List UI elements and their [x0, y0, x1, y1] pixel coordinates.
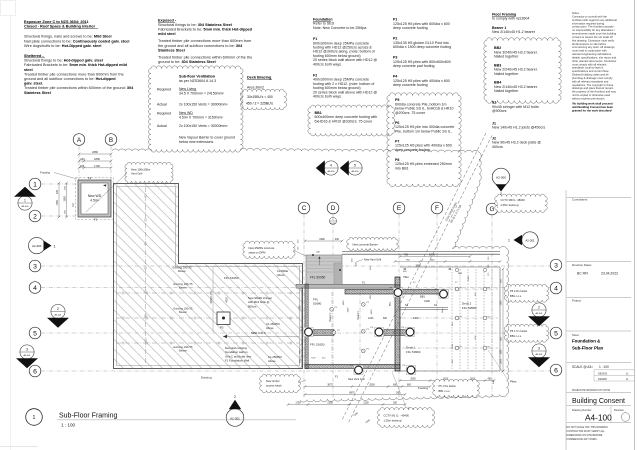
- svg-text:1980: 1980: [501, 349, 503, 355]
- svg-text:2x 100x150 Vents = 30000mm²: 2x 100x150 Vents = 30000mm²: [179, 103, 228, 107]
- P1 pile squares: [330, 307, 334, 311]
- svg-text:Nailed together: Nailed together: [494, 89, 519, 93]
- new room inner line: [308, 288, 395, 364]
- svg-text:P5 1.7m below: P5 1.7m below: [510, 329, 527, 333]
- svg-text:Revision: Revision: [614, 408, 625, 412]
- svg-text:Bearer: Bearer: [179, 310, 187, 314]
- svg-text:1.05m below gl: 1.05m below gl: [384, 418, 402, 422]
- svg-text:without express permission.: without express permission.: [572, 97, 605, 101]
- svg-text:Nail plate connections to be:: Nail plate connections to be: Continuous…: [24, 39, 129, 43]
- svg-text:New Vent Grill: New Vent Grill: [364, 258, 381, 262]
- S1 stringers: [400, 307, 448, 309]
- svg-text:Footing: Footing: [40, 171, 50, 175]
- svg-text:1: 1: [54, 244, 56, 248]
- existing building hatched footprint: [114, 184, 303, 369]
- beam deck1: [379, 330, 410, 336]
- svg-text:1890: 1890: [94, 157, 100, 161]
- svg-text:P5 1.5m below: P5 1.5m below: [439, 384, 456, 388]
- svg-text:until Building Consent has bee: until Building Consent has been: [572, 105, 613, 109]
- svg-text:information required during: information required during: [572, 21, 605, 25]
- svg-text:galv. steel.: galv. steel.: [24, 82, 43, 86]
- svg-text:Required: Required: [157, 87, 171, 91]
- deck bracing cloud: [240, 89, 286, 110]
- svg-text:Pile, bottom 1m below Public S: Pile, bottom 1m below Public SS IL.: [395, 129, 452, 133]
- svg-text:300: 300: [393, 402, 398, 405]
- WD top dimensions: [79, 153, 111, 155]
- svg-text:450 / 2 = 225BU's: 450 / 2 = 225BU's: [246, 101, 273, 105]
- deck outline: [400, 266, 500, 268]
- svg-text:Exposed -: Exposed -: [158, 19, 177, 23]
- svg-text:DRAWN: DRAWN: [598, 378, 607, 381]
- grid lines vertical: [78, 146, 80, 180]
- svg-text:Above: Above: [268, 359, 276, 363]
- svg-text:2: 2: [234, 395, 236, 399]
- svg-text:as per NZS3604 6.14.3: as per NZS3604 6.14.3: [179, 79, 216, 83]
- public sewer dashed line 2: [349, 136, 493, 423]
- svg-text:2050: 2050: [410, 378, 416, 381]
- svg-text:P3: P3: [220, 326, 224, 330]
- svg-text:2: 2: [538, 305, 540, 309]
- svg-text:C: C: [302, 205, 307, 212]
- svg-text:Stainless Steel: Stainless Steel: [24, 91, 51, 95]
- existing bearers: [116, 292, 300, 294]
- new timber access hatch cloud: [260, 374, 301, 393]
- svg-text:Bearer 1: Bearer 1: [329, 312, 332, 322]
- svg-text:amendments made once the build: amendments made once the building: [572, 32, 617, 36]
- svg-text:3: 3: [33, 263, 37, 270]
- svg-text:F2: F2: [88, 176, 92, 180]
- svg-text:2x 100x150 Vents = 30000mm²: 2x 100x150 Vents = 30000mm²: [179, 124, 228, 128]
- concrete steps: [306, 255, 342, 288]
- svg-text:Zealand building codes,and all: Zealand building codes,and all: [572, 73, 609, 77]
- sheet left trim line: [10, 16, 12, 450]
- svg-text:up: up: [317, 250, 321, 254]
- svg-text:CONTRACTOR MUST VERIFY ALL: CONTRACTOR MUST VERIFY ALL: [567, 430, 606, 433]
- svg-text:400crs both ways.: 400crs both ways.: [313, 62, 342, 66]
- svg-text:access hatch: access hatch: [266, 384, 282, 388]
- svg-text:1790: 1790: [300, 305, 302, 311]
- svg-text:Contractor to consult with the: Contractor to consult with the: [572, 14, 607, 18]
- concrete barrier: [342, 251, 500, 253]
- svg-text:must comply with all relevant: must comply with all relevant: [572, 62, 607, 66]
- svg-text:New timber: New timber: [266, 379, 280, 383]
- svg-text:2100: 2100: [413, 317, 419, 320]
- svg-text:relevant engineering calculati: relevant engineering calculations,: [572, 52, 612, 56]
- P5-P8 cloud: [387, 93, 462, 187]
- elevation marker A2-301 bottom balloon: [226, 395, 244, 426]
- svg-text:Structural fixings, nails and: Structural fixings, nails and screws to …: [24, 35, 112, 39]
- svg-text:A5-500: A5-500: [330, 222, 336, 225]
- BB1 cloud note: [308, 105, 395, 136]
- svg-text:Actual: Actual: [157, 124, 167, 128]
- svg-text:Revision Dates: Revision Dates: [572, 263, 592, 267]
- svg-text:Area 30m2: Area 30m2: [247, 86, 264, 90]
- svg-text:2.05m below gl: 2.05m below gl: [501, 203, 519, 207]
- svg-text:Footing: Footing: [418, 386, 428, 390]
- svg-text:Stainless Steel: Stainless Steel: [158, 48, 185, 52]
- section marker 3/A3-401: [16, 345, 38, 368]
- svg-text:5: 5: [354, 163, 356, 167]
- svg-text:DIMENSIONS ON SITE BEFORE: DIMENSIONS ON SITE BEFORE: [567, 434, 603, 437]
- svg-text:New Living: New Living: [179, 87, 196, 91]
- svg-text:4: 4: [33, 285, 37, 292]
- marker 2/A5-500 below D: [329, 217, 336, 224]
- svg-text:A2-300: A2-300: [32, 244, 42, 248]
- svg-text:mild steel: mild steel: [158, 32, 176, 36]
- svg-text:Nailed together: Nailed together: [494, 72, 519, 76]
- svg-text:1460: 1460: [343, 300, 345, 306]
- svg-text:400: 400: [335, 238, 340, 241]
- svg-text:steel: steel: [24, 68, 33, 72]
- svg-text:the property of the Architect: the property of the Architect and may: [572, 90, 617, 94]
- svg-text:CCTV MD IL: 48000: CCTV MD IL: 48000: [501, 198, 526, 202]
- svg-text:Architect with regard to any a: Architect with regard to any additional: [572, 18, 617, 22]
- svg-text:Step: Step: [441, 308, 444, 313]
- svg-text:1990: 1990: [319, 238, 325, 241]
- elevation marker A2-301 right: [508, 232, 538, 248]
- svg-text:F2: F2: [94, 218, 98, 222]
- svg-text:2: 2: [33, 213, 37, 220]
- svg-text:New 2/140x45 H1.2 bearer: New 2/140x45 H1.2 bearer: [492, 30, 536, 34]
- svg-text:A2-300: A2-300: [496, 176, 506, 180]
- svg-text:4.5m² X 700mm = 3150mm²: 4.5m² X 700mm = 3150mm²: [179, 116, 224, 120]
- title block borders: [634, 0, 636, 450]
- svg-text:Bearer: Bearer: [178, 269, 186, 273]
- svg-text:Actual: Actual: [157, 103, 167, 107]
- svg-text:1490: 1490: [348, 307, 350, 313]
- svg-text:with all relevant standards an: with all relevant standards and: [572, 79, 609, 83]
- svg-text:5: 5: [33, 330, 37, 337]
- svg-text:Above: Above: [266, 326, 274, 330]
- svg-text:standards, local by-laws &: standards, local by-laws &: [572, 66, 603, 70]
- CCTV M1 cloud: [378, 408, 435, 428]
- WD left dimensions: [58, 183, 60, 217]
- svg-text:DO NOT SCALE OFF THIS DRAWING.: DO NOT SCALE OFF THIS DRAWING.: [567, 426, 609, 429]
- svg-text:Wire dogs/bolts to be: Hot-Dip: Wire dogs/bolts to be: Hot-Dipped galv. …: [24, 44, 101, 48]
- svg-text:400crs both ways.: 400crs both ways.: [313, 95, 342, 99]
- svg-text:Sub-floor Ventilation: Sub-floor Ventilation: [179, 74, 216, 78]
- grid lines horizontal: [41, 183, 77, 185]
- dims right of room (vertical): [301, 288, 303, 367]
- svg-text:1230: 1230: [368, 317, 374, 320]
- svg-text:@900crs: @900crs: [492, 109, 507, 113]
- svg-text:Project: Project: [572, 299, 581, 303]
- existing building inner wall line: [117, 187, 300, 366]
- svg-text:1: 1: [24, 198, 26, 202]
- svg-text:8970: 8970: [349, 392, 355, 395]
- section marker 2/A3-401: [47, 304, 69, 327]
- section marker 5/A3-400: [340, 160, 362, 175]
- beam room: [313, 330, 334, 336]
- svg-text:FFL 51650: FFL 51650: [310, 343, 325, 347]
- svg-text:700: 700: [404, 254, 409, 257]
- svg-text:4930: 4930: [226, 297, 229, 303]
- svg-text:C1-250PFC: C1-250PFC: [266, 322, 280, 326]
- svg-text:F2: F2: [71, 203, 75, 207]
- svg-text:New WD: New WD: [88, 194, 102, 198]
- sheet bottom-left mark: [0, 446, 38, 448]
- svg-text:Deck 2: Deck 2: [462, 302, 472, 306]
- svg-text:600: 600: [383, 317, 388, 320]
- svg-text:Structural fixings to be: Hot-: Structural fixings to be: Hot-dipped gal…: [24, 59, 103, 63]
- svg-text:51680: 51680: [313, 302, 322, 306]
- svg-text:1 : 100: 1 : 100: [61, 422, 75, 427]
- svg-text:3: 3: [554, 262, 558, 269]
- svg-text:SCALE @ A3=: SCALE @ A3=: [572, 365, 593, 369]
- svg-text:BB1 c.o.s.: BB1 c.o.s.: [510, 294, 522, 298]
- svg-text:Bearer: Bearer: [179, 348, 187, 352]
- section marker 2/A3-401: [528, 303, 550, 326]
- deck top micro annotations: [395, 261, 500, 263]
- svg-text:A3-401: A3-401: [54, 314, 62, 317]
- svg-text:Existing 100x75: Existing 100x75: [174, 282, 193, 286]
- svg-text:Exposure Zone C to NZS 3604: 2: Exposure Zone C to NZS 3604: 2011: [24, 20, 89, 24]
- svg-text:ISSUE DATE 30/03/2022 9:57:34: ISSUE DATE 30/03/2022 9:57:34 PM: [572, 389, 610, 392]
- svg-text:Consultants: Consultants: [572, 198, 588, 202]
- grid bubbles right: [550, 259, 562, 271]
- svg-text:other relevant documents. Cont: other relevant documents. Contractor: [572, 59, 616, 63]
- public sewer dashed line 1: [342, 133, 486, 420]
- svg-text:G: G: [490, 206, 495, 213]
- svg-text:900crs: 900crs: [248, 304, 257, 308]
- section marker 4/A3-400: [316, 160, 338, 175]
- svg-text:4: 4: [554, 285, 558, 292]
- svg-text:195: 195: [80, 164, 85, 168]
- svg-text:drawings and plans thereof rem: drawings and plans thereof remain: [572, 86, 614, 90]
- svg-text:New Vent Grill: New Vent Grill: [348, 377, 365, 381]
- svg-text:FFL 50960: FFL 50960: [406, 350, 421, 354]
- svg-text:6: 6: [33, 368, 37, 375]
- svg-text:3100: 3100: [424, 299, 430, 303]
- big revision cloud boundary: [112, 149, 152, 151]
- svg-text:steps on DPM: steps on DPM: [249, 251, 267, 255]
- svg-text:COMMENCING ANY WORK.: COMMENCING ANY WORK.: [567, 438, 598, 441]
- svg-text:FFL 50950: FFL 50950: [310, 276, 326, 280]
- grid bubbles top C-G: [298, 202, 310, 214]
- elevation marker A2-300 left: [29, 237, 56, 253]
- svg-text:the ground and all subfloor co: the ground and all subfloor connections …: [158, 44, 243, 48]
- svg-text:1: 1: [33, 181, 37, 188]
- svg-text:commencing any work. All drawi: commencing any work. All drawings: [572, 45, 615, 49]
- svg-text:Sub-Floor Plan: Sub-Floor Plan: [572, 346, 604, 351]
- svg-text:plumbing & drainage must compl: plumbing & drainage must comply: [572, 76, 613, 80]
- svg-text:2: 2: [57, 307, 59, 311]
- svg-text:ground to be: 304 Stainless St: ground to be: 304 Stainless Steel: [158, 60, 216, 64]
- svg-text:Building Consent: Building Consent: [572, 398, 625, 405]
- svg-text:5: 5: [554, 330, 558, 337]
- svg-text:2100: 2100: [363, 402, 369, 405]
- svg-text:deep concrete footing: deep concrete footing: [393, 83, 428, 87]
- svg-text:Treated timber pile connection: Treated timber pile connections more tha…: [24, 72, 124, 76]
- new room foundation walls: [296, 284, 400, 288]
- svg-text:CCTV M1 IL: - 49400: CCTV M1 IL: - 49400: [384, 414, 410, 418]
- svg-text:BB1 c.o.s.: BB1 c.o.s.: [510, 334, 522, 338]
- svg-text:Piles: Piles: [510, 380, 517, 384]
- svg-text:regulations. The copyright to: regulations. The copyright to these: [572, 83, 614, 87]
- svg-text:BC RFI: BC RFI: [577, 272, 588, 276]
- svg-text:6: 6: [554, 367, 558, 374]
- svg-text:5250 C.O.S.: 5250 C.O.S.: [251, 331, 267, 335]
- svg-text:Nailed together: Nailed together: [494, 55, 519, 59]
- svg-text:all dimensions on site before: all dimensions on site before: [572, 42, 607, 46]
- svg-text:F: F: [435, 205, 439, 212]
- svg-text:Treated timber pile connection: Treated timber pile connections within 6…: [24, 86, 134, 90]
- svg-text:construction. The Architect a: construction. The Architect accepts: [572, 25, 614, 29]
- svg-text:New 25MPa concrete: New 25MPa concrete: [249, 246, 275, 250]
- svg-text:Fabricated Brackets to be: 5mm: Fabricated Brackets to be: 5mm min. thic…: [24, 63, 128, 67]
- svg-text:2100: 2100: [327, 402, 333, 405]
- svg-text:Bearer 1: Bearer 1: [357, 310, 360, 320]
- svg-text:Fabricated Brackets to be: 5mm: Fabricated Brackets to be: 5mm min. thic…: [158, 28, 253, 32]
- svg-text:E: E: [397, 205, 401, 212]
- section marker 1/A3-400: [14, 187, 36, 210]
- svg-text:specifications and current New: specifications and current New: [572, 69, 609, 73]
- svg-text:30x15BU's = 450: 30x15BU's = 450: [247, 95, 273, 99]
- svg-text:Note: New Concrete to be 25Mpa: Note: New Concrete to be 25Mpa: [313, 26, 366, 30]
- section marker 3/A3-401: [528, 344, 550, 367]
- svg-text:34.5 X 700mm² = 24150mm²: 34.5 X 700mm² = 24150mm²: [179, 91, 224, 95]
- svg-text:FFL 51650: FFL 51650: [224, 276, 239, 280]
- svg-text:3: 3: [538, 346, 540, 350]
- svg-text:1000: 1000: [452, 343, 454, 349]
- svg-text:Sheet: Sheet: [572, 333, 579, 337]
- svg-text:A3-401: A3-401: [23, 354, 31, 357]
- svg-text:2800: 2800: [429, 254, 435, 257]
- new 25MPa steps cloud: [243, 241, 295, 258]
- svg-text:consent is issued. Do not scal: consent is issued. Do not scale off: [572, 35, 613, 39]
- svg-text:400crs: 400crs: [492, 145, 503, 149]
- svg-text:1790: 1790: [56, 200, 59, 206]
- svg-text:this drawing. Contractor must: this drawing. Contractor must verify: [572, 38, 615, 42]
- vertical dim mid-building: [212, 267, 214, 332]
- svg-text:into BB1: into BB1: [395, 166, 409, 170]
- svg-text:1000: 1000: [468, 275, 470, 281]
- svg-text:A3-401: A3-401: [535, 312, 543, 315]
- svg-text:A: A: [77, 137, 82, 144]
- svg-text:deep concrete footing: deep concrete footing: [393, 26, 428, 30]
- svg-text:Above: Above: [277, 273, 285, 277]
- svg-text:A3-400: A3-400: [21, 205, 29, 208]
- svg-text:A3-401: A3-401: [535, 353, 543, 356]
- svg-text:Existing 100x75: Existing 100x75: [174, 307, 193, 311]
- svg-text:not be copied or otherwise use: not be copied or otherwise used: [572, 93, 611, 97]
- svg-text:4: 4: [330, 163, 332, 167]
- svg-text:A2-301: A2-301: [525, 239, 535, 243]
- svg-text:to comply with nzs3604: to comply with nzs3604: [492, 17, 529, 21]
- svg-text:Drawing Number: Drawing Number: [572, 408, 592, 412]
- svg-text:Existing 100x75: Existing 100x75: [174, 345, 193, 349]
- deck pile rows: [402, 288, 498, 290]
- WD room walls: [78, 180, 111, 217]
- svg-text:Foundation &: Foundation &: [572, 339, 601, 344]
- svg-text:2500: 2500: [369, 384, 375, 387]
- svg-text:1852: 1852: [430, 260, 436, 262]
- svg-text:@200crs. 75 cover: @200crs. 75 cover: [395, 111, 426, 115]
- dims right of deck: [502, 269, 504, 371]
- svg-text:Deck 1: Deck 1: [406, 346, 416, 350]
- svg-text:New WD: New WD: [179, 111, 193, 115]
- room bearer lines: [331, 292, 333, 366]
- svg-text:'No building work shall procee: 'No building work shall proceed: [572, 102, 613, 106]
- BB1 beam: [345, 290, 448, 295]
- svg-text:A3-400: A3-400: [327, 170, 335, 173]
- svg-text:Sub-Floor Framing: Sub-Floor Framing: [59, 413, 117, 420]
- svg-text:1920: 1920: [371, 309, 373, 315]
- elevation marker A2-300 top balloon: [492, 168, 510, 196]
- sheet corner mark: [1, 1, 16, 16]
- BB2-BB4 cloud: [484, 38, 561, 104]
- svg-text:BB1: BB1: [420, 295, 425, 299]
- svg-text:deep concrete pad footing: deep concrete pad footing: [393, 64, 435, 68]
- svg-text:D: D: [331, 205, 336, 212]
- svg-text:C1-250PFC: C1-250PFC: [268, 355, 282, 359]
- svg-text:below new extensions: below new extensions: [179, 140, 213, 144]
- svg-text:granted for the work described: granted for the work described': [572, 108, 612, 112]
- svg-text:2: 2: [500, 192, 502, 196]
- dims bottom of extension: [400, 380, 494, 382]
- svg-text:must read in conjunction with: must read in conjunction with: [572, 49, 607, 53]
- svg-text:1580: 1580: [64, 196, 67, 202]
- svg-text:3: 3: [26, 347, 28, 351]
- svg-text:Treated timber pile connection: Treated timber pile connections more tha…: [158, 39, 251, 43]
- svg-text:New 140x45 H1.2 joists @450crs: New 140x45 H1.2 joists @450crs: [492, 126, 545, 130]
- svg-text:450: 450: [488, 378, 493, 381]
- svg-text:C2-89dia: C2-89dia: [277, 269, 288, 273]
- svg-text:2080: 2080: [92, 150, 98, 154]
- svg-text:Existing: Existing: [201, 376, 212, 380]
- svg-text:Treated timber pile connection: Treated timber pile connections within 6…: [158, 55, 252, 59]
- svg-text:B: B: [109, 137, 113, 144]
- view title: [26, 409, 43, 426]
- svg-text:6xHD16 & HR10 @330crs. 75 cove: 6xHD16 & HR10 @330crs. 75 cover: [315, 119, 374, 123]
- svg-text:Deck Bracing: Deck Bracing: [247, 76, 272, 80]
- svg-text:1790: 1790: [94, 164, 100, 168]
- svg-text:DESIGN: DESIGN: [598, 372, 607, 375]
- svg-text:3350/C.O.S.: 3350/C.O.S.: [210, 290, 213, 303]
- svg-text:1: 1: [33, 415, 36, 421]
- new 100x150w vent grill cloud: [125, 162, 173, 183]
- svg-text:A4-100: A4-100: [585, 412, 612, 422]
- WD room dashed surround: [76, 178, 114, 220]
- svg-text:FFL 50580: FFL 50580: [462, 306, 477, 310]
- sub-floor ventilation cloud box: [148, 66, 243, 152]
- svg-text:BB1 c.o.s.: BB1 c.o.s.: [439, 389, 451, 393]
- P5 depth clouds right: [504, 284, 549, 302]
- grid bubbles top A B: [73, 134, 85, 146]
- large piles P5/P8: [393, 288, 402, 297]
- svg-text:1200: 1200: [501, 358, 503, 364]
- svg-text:Notes: Notes: [572, 11, 580, 15]
- dims above steps: [305, 240, 342, 242]
- svg-text:3075: 3075: [327, 384, 333, 387]
- svg-text:Required: Required: [157, 111, 171, 115]
- deck joists dashed: [451, 269, 453, 369]
- svg-text:Closed - Roof Space & Building: Closed - Roof Space & Building Interior: [24, 25, 96, 29]
- svg-text:P5 2.0m below: P5 2.0m below: [510, 289, 527, 293]
- svg-text:A3-400: A3-400: [351, 170, 359, 173]
- new concrete barrier cloud: [347, 237, 399, 250]
- CCTV MD cloud: [495, 194, 548, 212]
- svg-text:Structural fixings to be: 304: Structural fixings to be: 304 Stainless …: [158, 23, 232, 27]
- svg-text:Sheltered -: Sheltered -: [24, 54, 44, 58]
- svg-text:ground and all subfloor connec: ground and all subfloor connections to b…: [24, 77, 116, 81]
- svg-text:New Vapour Barrier to cover gr: New Vapour Barrier to cover ground: [179, 135, 235, 139]
- svg-text:800: 800: [407, 384, 412, 387]
- svg-text:S1: S1: [434, 303, 438, 307]
- svg-text:23.04.2022: 23.04.2022: [601, 272, 618, 276]
- svg-text:New concrete Barrier: New concrete Barrier: [353, 243, 378, 247]
- svg-text:220: 220: [56, 189, 59, 194]
